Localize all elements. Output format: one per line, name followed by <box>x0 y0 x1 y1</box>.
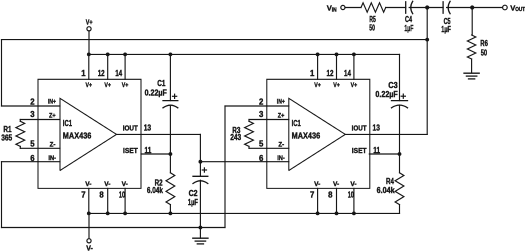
svg-text:MAX436: MAX436 <box>63 131 92 141</box>
IC1 pin number 8 <box>99 191 104 200</box>
svg-text:V+: V+ <box>122 82 129 89</box>
svg-text:Z+: Z+ <box>278 113 285 120</box>
node C2/ground junction <box>199 226 203 230</box>
VIN label <box>327 4 337 14</box>
capacitor C4 1uF <box>406 1 413 13</box>
VOUT output terminal <box>503 5 508 10</box>
svg-text:5: 5 <box>259 139 264 148</box>
IC2 internal pin wires <box>267 106 289 162</box>
svg-text:V+: V+ <box>86 20 93 27</box>
R2 label <box>155 178 164 187</box>
svg-text:12: 12 <box>327 69 335 78</box>
svg-text:V-: V- <box>122 181 128 188</box>
svg-text:Z-: Z- <box>50 142 56 149</box>
svg-text:V-: V- <box>104 181 110 188</box>
IC2 junction dots on V- rail <box>316 212 356 216</box>
svg-text:V+: V+ <box>104 82 111 89</box>
svg-text:MAX436: MAX436 <box>292 131 321 141</box>
resistor R1 <box>16 120 25 149</box>
IC2 V- pin labels <box>314 181 357 188</box>
wire IC1 ISET (pin 11) <box>141 153 170 155</box>
wire IC1 Z- (pin 5) <box>20 147 38 149</box>
svg-text:OUT: OUT <box>515 7 525 13</box>
op-amp IC2 MAX436 outline <box>267 79 370 188</box>
svg-text:V-: V- <box>314 181 320 188</box>
wire IC2 output vertical to C4/C5 node <box>426 8 428 135</box>
capacitor C2 lead to ground rail <box>199 180 201 227</box>
IC1 Z+ pin label <box>49 113 56 120</box>
wire left ground vertical <box>1 162 3 228</box>
svg-text:8: 8 <box>328 191 333 200</box>
svg-text:0.22µF: 0.22µF <box>375 90 398 99</box>
ground <box>193 228 208 244</box>
wire IC1 Z+ (pin 3) <box>20 119 38 121</box>
resistor R6 lead <box>471 8 473 36</box>
node R6 tap <box>470 5 474 9</box>
svg-text:1µF: 1µF <box>441 25 451 34</box>
C3 value 0.22uF <box>375 90 398 99</box>
IC2 pin number 11 <box>373 146 380 155</box>
IC1 junction dots on V- rail <box>87 212 127 216</box>
C3 polarity plus <box>401 94 405 98</box>
svg-text:IN-: IN- <box>277 155 285 162</box>
wire IC1 IN+ (pin 2) <box>2 105 39 107</box>
svg-text:50: 50 <box>481 48 488 57</box>
IC2 pin number 13 <box>373 124 381 133</box>
V- label <box>86 246 93 251</box>
IC2 pin number 2 <box>259 98 264 107</box>
wire to VOUT terminal <box>472 7 502 9</box>
IC2 pin number 6 <box>259 154 264 163</box>
svg-text:IOUT: IOUT <box>352 124 368 133</box>
svg-text:V+: V+ <box>86 82 93 89</box>
svg-text:1: 1 <box>81 69 86 78</box>
IC2 IN- pin label <box>277 155 285 162</box>
C5 value 1uF <box>441 25 451 34</box>
resistor R6 <box>467 35 475 73</box>
svg-text:6.04k: 6.04k <box>377 186 396 195</box>
capacitor C3 lead to ISET node <box>399 105 401 154</box>
IC2 pin number 5 <box>259 139 264 148</box>
capacitor C3 lead from V+ rail <box>399 54 401 100</box>
C2 label <box>189 189 199 198</box>
node IC1-out / IC2-IN- junction <box>199 160 203 164</box>
node IC2 ISET junction <box>398 152 402 156</box>
C1 polarity plus <box>173 94 177 98</box>
svg-text:5: 5 <box>30 139 35 148</box>
wire IC1 output vertical <box>199 134 201 161</box>
IC1 pin number 11 <box>145 146 152 155</box>
svg-text:IN+: IN+ <box>48 99 56 106</box>
svg-text:14: 14 <box>344 69 352 78</box>
svg-text:13: 13 <box>144 124 152 133</box>
svg-text:V+: V+ <box>314 82 321 89</box>
svg-text:7: 7 <box>81 191 85 200</box>
R3 label <box>232 126 241 135</box>
C1 label <box>157 79 166 88</box>
IC2 pin number 12 <box>327 69 335 78</box>
svg-text:C1: C1 <box>157 79 166 88</box>
svg-text:2: 2 <box>30 98 35 107</box>
V+ supply terminal <box>87 27 91 55</box>
IC1 pin number 14 <box>115 69 123 78</box>
IC1 pin number 10 <box>119 191 126 200</box>
svg-text:3: 3 <box>30 110 35 119</box>
IC2 ISET pin label <box>352 146 367 155</box>
svg-text:7: 7 <box>310 191 314 200</box>
svg-text:3: 3 <box>259 110 264 119</box>
node C4/C5 junction <box>425 5 429 9</box>
IC1 IN- pin label <box>48 155 56 162</box>
C3 label <box>388 81 398 90</box>
IC2 IOUT pin label <box>352 124 368 133</box>
IC2 pin number 14 <box>344 69 352 78</box>
IC2 V+ pin stubs (pins 1,12,14) <box>318 54 354 79</box>
IC1 IOUT pin label <box>123 124 139 133</box>
wire ground rail <box>2 227 226 229</box>
IC1 pin number 13 <box>144 124 152 133</box>
IC2 junction dots on V+ rail <box>316 53 356 57</box>
IC2 pin number 3 <box>259 110 264 119</box>
svg-text:IC1: IC1 <box>63 118 72 128</box>
wire IC2 IOUT (pin 13) <box>345 133 427 135</box>
IC1 junction dots on V+ rail <box>87 53 127 57</box>
R6 value 50 <box>481 48 488 57</box>
capacitor C3 <box>392 101 408 108</box>
IC1 pin number 12 <box>98 69 106 78</box>
IC2 pin number 1 <box>310 69 315 78</box>
svg-text:1µF: 1µF <box>188 198 198 207</box>
wire IC2 IN+ ground vertical <box>224 106 226 228</box>
resistor R5 50 <box>361 3 386 12</box>
svg-text:ISET: ISET <box>123 146 138 155</box>
svg-text:6.04k: 6.04k <box>147 186 164 195</box>
svg-text:12: 12 <box>98 69 106 78</box>
svg-text:C3: C3 <box>388 81 398 90</box>
IC1 V+ pin stubs (pins 1,12,14) <box>89 54 125 79</box>
svg-text:Z+: Z+ <box>49 113 56 120</box>
IC1 V- pin labels <box>85 181 127 188</box>
capacitor C2 <box>193 176 208 183</box>
svg-text:243: 243 <box>230 133 242 142</box>
C4 label <box>405 15 412 24</box>
IC1 V- pin stubs (pins 7,8,10) <box>89 188 125 213</box>
capacitor C1 <box>163 101 178 108</box>
R5 label <box>369 15 376 24</box>
IC1 pin number 1 <box>81 69 86 78</box>
IC1 designator <box>63 118 72 128</box>
IC2 pin number 10 <box>348 191 355 200</box>
wire feedback rail (node FB, output to IN+) <box>2 39 428 41</box>
svg-text:ISET: ISET <box>352 146 367 155</box>
IC1 IN+ pin label <box>48 99 56 106</box>
C4 value 1uF <box>404 24 413 33</box>
capacitor C1 lead to ISET node <box>169 106 171 154</box>
svg-text:IOUT: IOUT <box>123 124 139 133</box>
wire IC2 IN- (pin 6) <box>200 161 266 163</box>
capacitor C2 lead <box>199 162 201 177</box>
wire C5 to VOUT node <box>447 7 473 9</box>
IC1 Z- pin label <box>50 142 56 149</box>
svg-text:365: 365 <box>1 133 13 142</box>
svg-text:13: 13 <box>373 124 381 133</box>
svg-text:IN: IN <box>332 8 337 14</box>
V- supply terminal <box>87 213 91 243</box>
R4 label <box>386 177 395 186</box>
IC2 Z- pin label <box>278 142 284 149</box>
IC1 pin number 3 <box>30 110 35 119</box>
IC2 pin number 8 <box>328 191 333 200</box>
wire IC2 Z+ (pin 3) <box>249 119 267 121</box>
svg-text:R6: R6 <box>480 39 488 48</box>
svg-text:Z-: Z- <box>278 142 284 149</box>
C5 label <box>444 17 451 26</box>
svg-text:10: 10 <box>348 191 355 200</box>
wire R5 to C4 <box>386 7 406 9</box>
svg-text:V-: V- <box>350 181 356 188</box>
IC2 IN+ pin label <box>277 99 285 106</box>
R4 value 6.04k <box>377 186 396 195</box>
R5 value 50 <box>369 24 375 33</box>
wire IC2 ISET (pin 11) <box>369 153 399 155</box>
IC2 part number MAX436 <box>292 131 321 141</box>
node IC1 ISET junction <box>169 152 173 156</box>
resistor R4 <box>395 154 404 213</box>
svg-text:14: 14 <box>115 69 123 78</box>
wire V- rail <box>89 212 400 214</box>
IC1 pin number 2 <box>30 98 35 107</box>
wire IC2 Z- (pin 5) <box>249 147 267 149</box>
svg-text:V-: V- <box>85 181 91 188</box>
R2 value 6.04k <box>147 186 164 195</box>
wire IC2 IN+ (pin 2) <box>225 105 267 107</box>
svg-text:R4: R4 <box>386 177 395 186</box>
svg-text:1: 1 <box>310 69 315 78</box>
wire VIN to R5 <box>345 7 361 9</box>
node V+ rail <box>89 53 400 55</box>
VIN input terminal <box>341 5 345 9</box>
wire IC1 IOUT (pin 13) <box>117 133 201 135</box>
IC1 pin number 7 <box>81 191 85 200</box>
IC1 pin number 6 <box>30 154 35 163</box>
VOUT label <box>510 4 525 13</box>
svg-text:50: 50 <box>369 24 375 33</box>
wire node to C5 <box>427 7 443 9</box>
svg-text:2: 2 <box>259 98 264 107</box>
R6 label <box>480 39 488 48</box>
IC1 ISET pin label <box>123 146 138 155</box>
ground below R6 <box>464 73 479 79</box>
IC1 part number MAX436 <box>63 131 92 141</box>
C1 value 0.22uF <box>145 89 167 98</box>
svg-text:V-: V- <box>86 246 93 251</box>
capacitor C5 1uF <box>443 1 450 13</box>
resistor R2 <box>166 154 175 215</box>
V+ label <box>86 20 93 27</box>
svg-text:IN-: IN- <box>48 155 56 162</box>
svg-text:C4: C4 <box>405 15 412 24</box>
op-amp IC1 MAX436 outline <box>38 79 141 188</box>
node feedback tap <box>425 38 429 42</box>
IC1 pin number 5 <box>30 139 35 148</box>
IC1 V+ pin labels <box>86 82 129 89</box>
IC1 internal pin wires <box>38 106 60 162</box>
svg-text:IN+: IN+ <box>277 99 285 106</box>
IC2 pin number 7 <box>310 191 314 200</box>
wire left feedback vertical <box>1 40 3 106</box>
wire IC1 IN- (pin 6) <box>2 161 39 163</box>
capacitor C1 lead from V+ rail <box>169 53 173 101</box>
R3 value 243 <box>230 133 242 142</box>
svg-text:V+: V+ <box>333 82 340 89</box>
wire C4 to node <box>409 7 427 9</box>
R1 label <box>3 125 12 134</box>
IC2 designator <box>292 118 301 128</box>
resistor R3 <box>245 120 254 149</box>
IC2 V- pin stubs (pins 7,8,10) <box>318 188 354 213</box>
svg-text:V-: V- <box>333 181 339 188</box>
IC2 V+ pin labels <box>314 82 357 89</box>
svg-text:0.22µF: 0.22µF <box>145 89 167 98</box>
svg-text:10: 10 <box>119 191 126 200</box>
svg-text:1µF: 1µF <box>404 24 413 33</box>
svg-text:IC1: IC1 <box>292 118 301 128</box>
C2 value 1uF <box>188 198 198 207</box>
R1 value 365 <box>1 133 13 142</box>
svg-text:V+: V+ <box>351 82 358 89</box>
IC2 Z+ pin label <box>278 113 285 120</box>
svg-text:8: 8 <box>99 191 104 200</box>
C2 polarity plus <box>202 168 206 172</box>
